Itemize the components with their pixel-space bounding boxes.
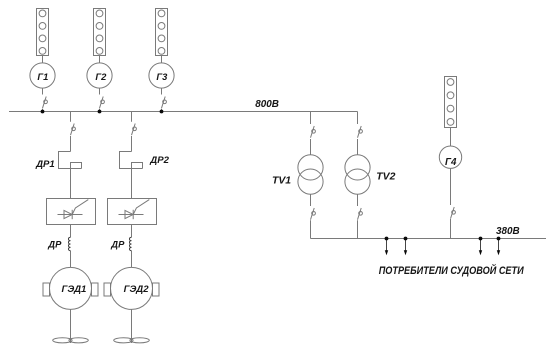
svg-text:Г2: Г2 <box>95 71 107 82</box>
svg-text:ДР1: ДР1 <box>35 159 55 170</box>
svg-text:ДР: ДР <box>47 238 62 249</box>
svg-text:ДР2: ДР2 <box>149 155 169 166</box>
svg-text:ГЭД2: ГЭД2 <box>124 284 150 295</box>
svg-text:800В: 800В <box>255 99 279 110</box>
svg-text:380В: 380В <box>496 226 520 237</box>
svg-text:TV1: TV1 <box>272 175 291 186</box>
svg-text:ПОТРЕБИТЕЛИ СУДОВОЙ СЕТИ: ПОТРЕБИТЕЛИ СУДОВОЙ СЕТИ <box>379 264 525 277</box>
svg-text:ГЭД1: ГЭД1 <box>61 284 86 295</box>
svg-text:Г1: Г1 <box>37 71 48 82</box>
svg-text:Г4: Г4 <box>445 157 457 168</box>
svg-text:ДР: ДР <box>110 238 125 249</box>
svg-text:Г3: Г3 <box>156 71 168 82</box>
svg-text:TV2: TV2 <box>376 171 395 182</box>
